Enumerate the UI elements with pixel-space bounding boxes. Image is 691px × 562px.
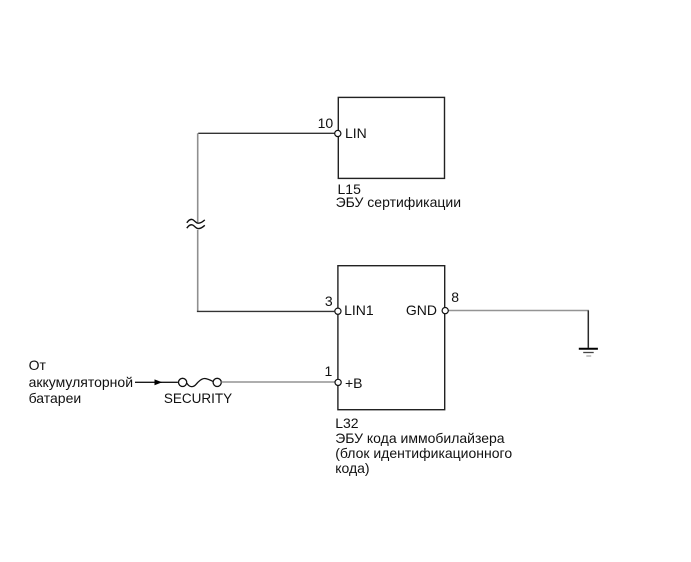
break symbol lower tilde bbox=[187, 225, 205, 229]
block U-L15 ECU box bbox=[338, 97, 444, 178]
fuse name SECURITY bbox=[164, 391, 232, 407]
pin 1 terminal bbox=[335, 379, 341, 385]
pin number 3 bbox=[325, 293, 333, 309]
wire GND vertical stem bbox=[587, 311, 589, 348]
wire from battery with arrow bbox=[135, 379, 178, 385]
wire fuse to pin 1 bbox=[221, 381, 335, 383]
label ECU certification bbox=[336, 194, 461, 210]
ground symbol bbox=[579, 349, 598, 356]
pin number 10 bbox=[318, 115, 334, 131]
pin 3 terminal bbox=[335, 308, 341, 314]
label L15 bbox=[338, 181, 361, 197]
pin name +B bbox=[345, 375, 363, 391]
block U-L32 ECU box bbox=[338, 266, 445, 410]
wire LIN net vertical upper bbox=[197, 133, 199, 222]
wire LIN1 horizontal bbox=[197, 310, 334, 312]
pin name LIN bbox=[345, 125, 367, 141]
pin name LIN1 bbox=[344, 302, 374, 318]
label L32 block bbox=[335, 416, 512, 477]
wire GND net bbox=[448, 310, 589, 312]
node label battery source bbox=[29, 357, 133, 406]
pin number 8 bbox=[451, 289, 459, 305]
wire LIN net upper segment bbox=[198, 132, 334, 134]
wire LIN net lower segment bbox=[197, 230, 199, 312]
pin number 1 bbox=[325, 363, 333, 379]
pin 10 terminal bbox=[335, 130, 341, 136]
pin name GND bbox=[406, 302, 437, 318]
pin 8 terminal bbox=[442, 308, 448, 314]
break symbol upper tilde bbox=[187, 219, 205, 223]
fuse SECURITY bbox=[179, 378, 222, 386]
